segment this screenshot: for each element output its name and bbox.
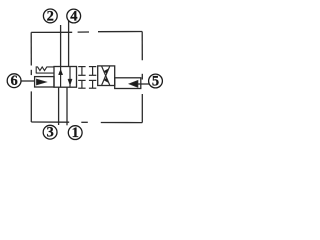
wire port 4 line bbox=[68, 21, 70, 67]
port circle 1 bbox=[68, 125, 82, 141]
port circle 5 bbox=[149, 74, 163, 90]
enclosure border bottom bbox=[31, 121, 142, 124]
pilot triangle right (solid) bbox=[129, 81, 138, 88]
port circle 6 bbox=[7, 73, 21, 89]
enclosure border right bbox=[141, 32, 143, 123]
blocked port top left bbox=[78, 67, 85, 76]
svg-text:2: 2 bbox=[47, 8, 54, 24]
enclosure border left bbox=[30, 32, 32, 122]
wire port 6 line bbox=[21, 80, 34, 82]
svg-text:5: 5 bbox=[152, 74, 159, 90]
enclosure border top bbox=[31, 31, 142, 34]
valve envelope position 2 (crossed) bbox=[98, 66, 115, 86]
blocked port bottom left bbox=[78, 80, 85, 88]
wire port 3 line bbox=[58, 87, 60, 125]
port circle 3 bbox=[43, 125, 57, 141]
pilot box left bbox=[35, 77, 54, 87]
wire port 5 line bbox=[138, 83, 149, 85]
svg-text:6: 6 bbox=[10, 73, 17, 89]
svg-text:1: 1 bbox=[72, 125, 79, 141]
arrow down position 1 bbox=[68, 67, 72, 88]
port circle 2 bbox=[43, 8, 57, 24]
wire port 1 line bbox=[66, 87, 68, 125]
pilot triangle left (solid) bbox=[37, 79, 47, 85]
blocked port bottom right bbox=[89, 80, 96, 88]
valve envelope position 1 bbox=[54, 67, 77, 88]
blocked port top right bbox=[89, 67, 96, 76]
wire port 2 line bbox=[60, 25, 62, 67]
spring bbox=[36, 67, 54, 73]
port circle 4 bbox=[67, 9, 81, 25]
pilot box right bbox=[115, 78, 141, 89]
svg-text:3: 3 bbox=[46, 125, 53, 141]
svg-text:4: 4 bbox=[70, 9, 77, 25]
arrow up position 1 bbox=[59, 67, 63, 88]
crossed arrows position 2 bbox=[102, 66, 110, 85]
